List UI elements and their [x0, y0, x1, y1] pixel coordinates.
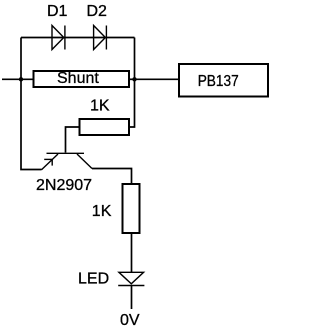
diode D1: [52, 26, 65, 50]
resistor Shunt: [34, 71, 130, 87]
svg-text:PB137: PB137: [198, 73, 239, 90]
wire node B to R1 right lead: [130, 79, 135, 127]
svg-text:1K: 1K: [90, 97, 110, 114]
wire Shunt to node B: [130, 78, 135, 80]
svg-text:Shunt: Shunt: [57, 70, 99, 87]
svg-text:2N2907: 2N2907: [36, 177, 92, 194]
transistor Q1 2N2907 (PNP): [42, 153, 93, 170]
voltage regulator U1 PB137: [179, 64, 268, 97]
wire LED to 0V: [131, 286, 133, 310]
LED D3: [118, 272, 144, 285]
wire right drop (top rail to node B): [134, 38, 136, 80]
svg-text:1K: 1K: [92, 203, 112, 220]
wire input (left edge to Shunt): [2, 78, 33, 80]
junction node A: [19, 77, 23, 81]
diode D2: [94, 26, 107, 50]
wire collector to R2: [92, 169, 132, 185]
wire node B to PB137: [135, 78, 179, 80]
svg-text:D1: D1: [47, 3, 68, 20]
wire top rail: [21, 37, 135, 39]
wire R1 left lead to base: [66, 127, 79, 153]
wire R2 to LED: [131, 233, 133, 272]
resistor R2 1K: [123, 184, 140, 233]
svg-text:LED: LED: [78, 271, 109, 288]
svg-text:0V: 0V: [120, 312, 140, 328]
wire left rail (top rail to emitter): [21, 38, 42, 170]
junction node B: [132, 77, 136, 81]
svg-text:D2: D2: [87, 3, 108, 20]
resistor R1 1K: [80, 119, 130, 135]
